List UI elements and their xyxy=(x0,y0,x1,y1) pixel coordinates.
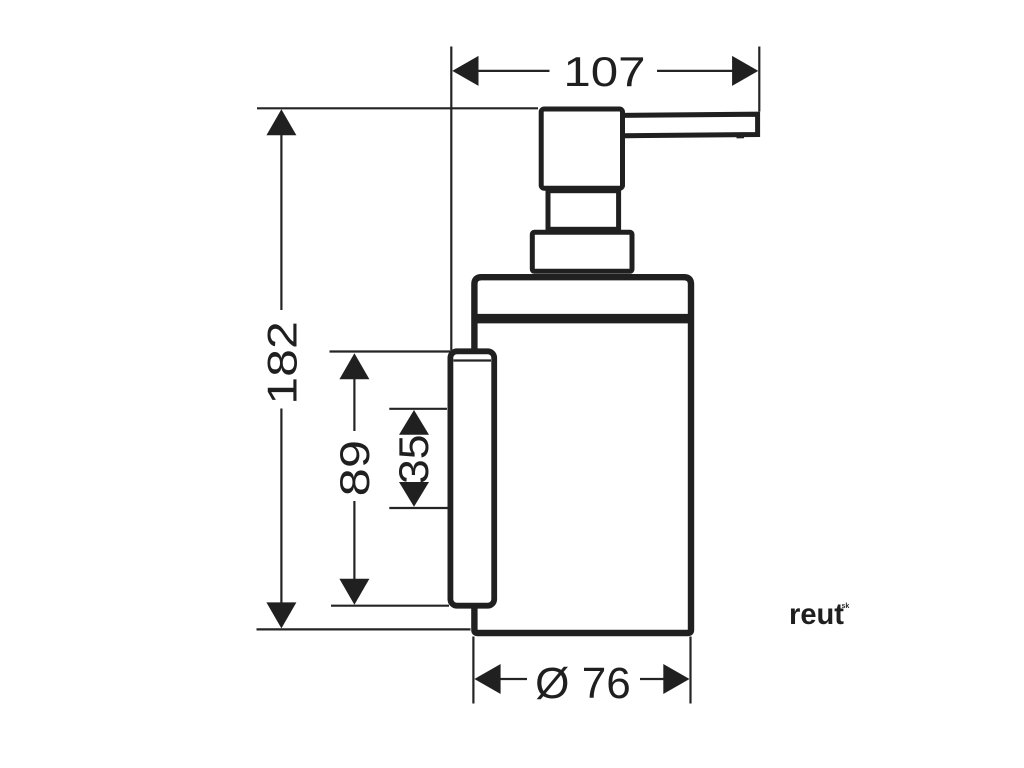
svg-text:182: 182 xyxy=(259,321,306,405)
dim 35 bottom arrow xyxy=(399,482,429,507)
dim 89 bottom extension line xyxy=(331,605,449,607)
spout clip notch xyxy=(737,135,745,138)
dim 182 line lower segment xyxy=(280,409,282,605)
spout xyxy=(622,114,758,136)
dim 76 left extension line xyxy=(472,637,474,704)
dim 89 bottom arrow xyxy=(339,579,369,605)
dim 76 line left segment xyxy=(500,678,527,680)
svg-text:sk: sk xyxy=(842,603,850,610)
svg-text:107: 107 xyxy=(563,48,645,95)
dim 76 line right segment xyxy=(640,678,665,680)
collar xyxy=(532,232,632,271)
dim 107 line right segment xyxy=(657,70,733,72)
dim 182 line upper segment xyxy=(280,134,282,310)
dim 182 top arrow xyxy=(266,109,296,135)
bottle body xyxy=(474,277,691,633)
dim 107 right arrow xyxy=(732,56,758,86)
svg-text:Ø 76: Ø 76 xyxy=(535,660,631,708)
dim 182 top extension line xyxy=(257,107,538,109)
dim 89 top extension line xyxy=(330,350,451,352)
dim 35 bottom extension line xyxy=(389,507,449,509)
svg-text:reut: reut xyxy=(789,598,844,631)
dim 35 top arrow xyxy=(399,410,429,435)
wall plate xyxy=(450,351,494,605)
dim 182 bottom extension line xyxy=(257,628,471,630)
svg-text:35: 35 xyxy=(390,434,437,484)
dim 35 top extension line xyxy=(389,408,447,410)
dim 107 right extension line xyxy=(758,47,760,112)
dim 107 left extension line xyxy=(450,47,452,352)
dim 107 left arrow xyxy=(452,56,478,86)
svg-text:89: 89 xyxy=(331,440,378,496)
dim 89 line upper segment xyxy=(353,379,355,431)
dim 76 right arrow xyxy=(663,664,689,694)
dim 107 line left segment xyxy=(478,70,550,72)
dim 89 line lower segment xyxy=(353,501,355,579)
pump head xyxy=(541,109,622,188)
dim 76 left arrow xyxy=(474,664,500,694)
bottle shoulder band xyxy=(476,314,690,324)
wall plate top seam xyxy=(454,359,492,361)
dim 76 right extension line xyxy=(689,637,691,704)
dim 89 top arrow xyxy=(339,353,369,379)
pump neck xyxy=(548,191,619,230)
dim 182 bottom arrow xyxy=(266,602,296,628)
